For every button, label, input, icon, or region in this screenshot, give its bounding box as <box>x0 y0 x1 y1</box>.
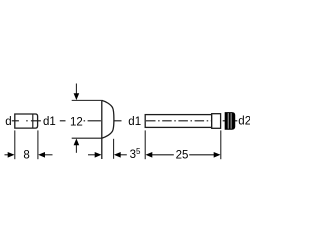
svg-text:d1: d1 <box>43 116 56 128</box>
dimension 25 extension line right <box>220 130 222 159</box>
collar at shaft end <box>212 114 221 129</box>
svg-text:d2: d2 <box>238 116 250 128</box>
thread slits <box>227 113 229 129</box>
centerline dot and dash before dome <box>84 120 86 122</box>
svg-text:8: 8 <box>23 149 29 161</box>
svg-text:5: 5 <box>136 147 141 156</box>
shaft centerline <box>146 120 220 122</box>
dimension 3.5 left arrow <box>88 154 95 156</box>
dimension 25 line right segment with arrow <box>189 154 214 156</box>
dome cap curved profile <box>102 100 114 138</box>
dimension 25 extension line left <box>144 130 146 159</box>
centerline dash between d1 and 12 <box>60 120 66 122</box>
dimension 12 top extension line <box>72 99 102 101</box>
sleeve body <box>15 114 38 128</box>
svg-text:12: 12 <box>70 116 83 128</box>
sleeve rim edge line <box>32 114 34 128</box>
svg-text:d: d <box>5 116 11 128</box>
dimension 8 right arrow <box>45 154 53 156</box>
dimension 8 extension line left <box>14 130 16 159</box>
shaft outline <box>145 115 212 128</box>
dimension 3.5 right arrow <box>120 154 127 156</box>
dimension 8 extension line right <box>37 130 39 159</box>
svg-text:25: 25 <box>176 149 189 161</box>
dimension 25 line left segment with arrow <box>152 154 174 156</box>
dimension 8 left arrow <box>5 154 9 156</box>
centerline of sleeve <box>12 120 19 122</box>
dimension 12 bottom arrow <box>75 145 77 153</box>
centerline right of dome <box>114 120 122 122</box>
threaded end d2 <box>225 113 235 130</box>
dome cap flat face <box>101 100 103 159</box>
dimension 12 bottom extension line <box>72 137 102 139</box>
svg-text:d1: d1 <box>128 116 141 128</box>
dimension 12 top arrow <box>75 84 77 95</box>
dimension 3.5 extension line right <box>113 139 115 159</box>
